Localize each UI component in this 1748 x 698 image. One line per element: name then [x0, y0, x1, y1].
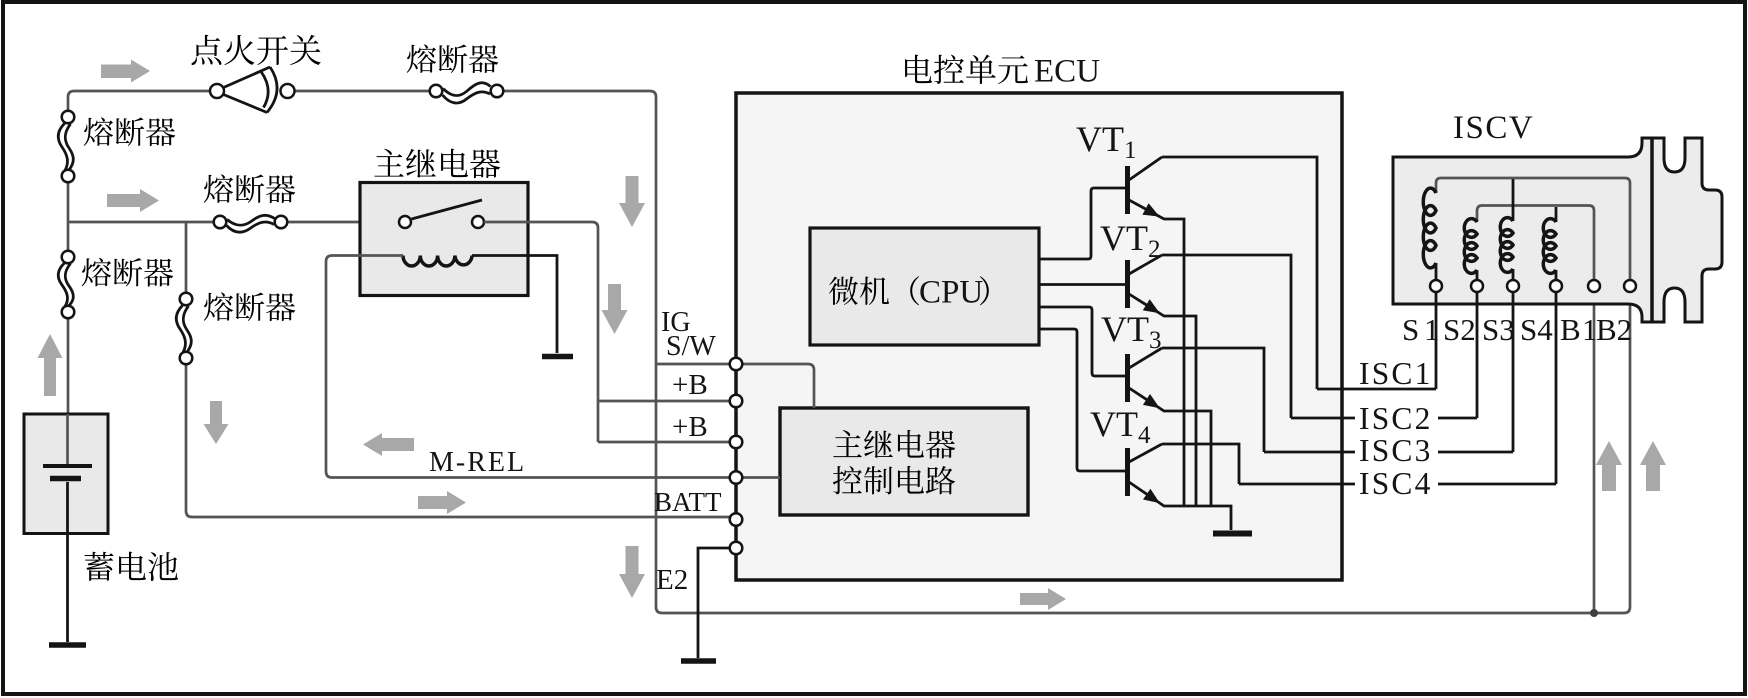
- svg-text:BATT: BATT: [654, 487, 722, 517]
- ground: battery: [49, 642, 86, 648]
- wire: coil to ground: [472, 256, 557, 354]
- flow arrow: bottom rail right: [1020, 588, 1066, 610]
- wire: IG S/W pin to control box: [742, 364, 814, 408]
- ignition switch SW (点火开关): [210, 67, 295, 113]
- CPU box 微机(CPU): [810, 228, 1039, 345]
- wire: ISCV supply rail 2 (B1): [1477, 206, 1594, 281]
- flow arrow: M-REL left: [363, 433, 414, 456]
- ground: E2: [681, 658, 716, 664]
- ground: relay coil: [542, 354, 573, 360]
- wire: ISC4: [1239, 483, 1556, 486]
- label: battery 蓄电池: [84, 552, 178, 582]
- svg-text:CPU: CPU: [919, 275, 983, 311]
- ISCV flange divider: [1650, 139, 1654, 321]
- svg-text:E2: E2: [656, 564, 688, 596]
- wire: ISC2: [1291, 417, 1477, 420]
- label: ） of CPU box: [980, 276, 989, 305]
- svg-text:S4: S4: [1520, 312, 1553, 347]
- battery plates: [43, 464, 92, 468]
- flow arrow: BATT branch down: [204, 401, 229, 444]
- flow arrow: +B down: [602, 284, 628, 334]
- relay switch contacts: [399, 216, 411, 228]
- wire: IG S/W branch into ECU: [656, 363, 730, 366]
- wire: S4 lead down to ISC4: [1555, 292, 1558, 484]
- wire: relay output to +B pins: [484, 222, 730, 442]
- battery box 蓄电池: [24, 414, 108, 534]
- svg-text:ISCV: ISCV: [1453, 110, 1534, 146]
- svg-text:ISC3: ISC3: [1359, 433, 1433, 468]
- fuse F2 (left vertical, upper): [58, 111, 74, 183]
- wire: E2 pin to ground: [698, 548, 730, 658]
- battery internal leads: [66, 414, 69, 464]
- svg-text:ISC2: ISC2: [1359, 401, 1433, 436]
- wire: S2 lead down to ISC2: [1476, 292, 1479, 418]
- relay coil: [403, 256, 472, 267]
- wire: rail drop to coil S4: [1555, 207, 1558, 222]
- ECU box 电控单元: [736, 93, 1342, 580]
- wire: CPU out 1 to VT1 base: [1039, 188, 1125, 259]
- svg-text:1: 1: [1424, 312, 1440, 347]
- svg-text:+B: +B: [672, 369, 708, 401]
- coil S4 winding: [1543, 219, 1556, 274]
- svg-text:S3: S3: [1482, 312, 1515, 347]
- wire: rail drop to coil S3: [1512, 179, 1515, 221]
- wire: BATT branch vertical x=186: [186, 222, 730, 517]
- wire: M-REL control (coil to ECU): [326, 256, 730, 478]
- flow arrow: E2 down: [619, 546, 645, 598]
- wire: S3 lead down to ISC3: [1512, 292, 1515, 452]
- coil S2 winding: [1464, 219, 1477, 274]
- relay switch blade: [412, 200, 483, 219]
- svg-text:ISC1: ISC1: [1359, 356, 1433, 391]
- wire: ISC3: [1264, 451, 1513, 454]
- label: control box line2 控制电路: [833, 466, 955, 494]
- fuse F3 (left vertical, lower): [58, 251, 74, 319]
- wire: CPU out 4 to VT4 base: [1039, 329, 1125, 471]
- flow arrow: into ignition switch: [101, 60, 150, 83]
- svg-text:B2: B2: [1596, 312, 1632, 347]
- label: 微机（ of CPU box: [829, 276, 919, 305]
- svg-text:S/W: S/W: [666, 331, 716, 362]
- fuse F5 (on BATT branch): [176, 293, 192, 365]
- fuse F4 (on relay feed wire): [214, 215, 288, 232]
- wire: bottom supply rail to ISCV B1/B2: [656, 292, 1630, 613]
- flow arrow: BATT right: [418, 491, 466, 514]
- svg-text:ISC4: ISC4: [1359, 466, 1433, 501]
- wire: M-REL pin to control box: [742, 476, 780, 479]
- transistor VT1: [1125, 157, 1317, 506]
- wire: CPU out 3 to VT3 base: [1039, 307, 1125, 376]
- ECU pin terminals: [730, 358, 743, 555]
- label: control box line1 主继电器: [833, 430, 955, 459]
- coil S3 winding: [1500, 218, 1513, 273]
- junction: B1 on bottom rail: [1590, 609, 1598, 617]
- fuse F1 (top, on ignition feed): [430, 83, 504, 103]
- wire: ISCV supply rail 1 (B2): [1436, 178, 1630, 280]
- wire: B1 drop: [1593, 292, 1596, 613]
- svg-text:S2: S2: [1443, 312, 1476, 347]
- label: fuse F3 熔断器: [82, 258, 173, 287]
- label: ECU title 电控单元: [905, 55, 1028, 85]
- ISCV terminal circles: [1430, 280, 1636, 292]
- coil S1 winding: [1423, 188, 1436, 268]
- label: fuse F5 熔断器: [204, 292, 295, 321]
- wire: ISC1: [1317, 388, 1436, 391]
- flow arrow: B2 up: [1640, 441, 1666, 491]
- label: main relay 主继电器: [374, 149, 500, 179]
- label: fuse F4 熔断器: [204, 174, 295, 203]
- wire: CPU out 2 to VT2 base: [1039, 283, 1125, 286]
- svg-text:+B: +B: [672, 411, 708, 443]
- flow arrow: battery up: [38, 334, 63, 396]
- svg-text:S: S: [1402, 312, 1419, 347]
- svg-text:B: B: [1560, 312, 1581, 347]
- flow arrow: into relay feed: [107, 189, 159, 212]
- transistor VT3: [1125, 348, 1264, 506]
- wire: top ignition feed y=91: [74, 91, 656, 609]
- main relay control circuit box 主继电器控制电路: [780, 408, 1028, 515]
- svg-text:ECU: ECU: [1034, 54, 1100, 90]
- wire: coil tails to terminals: [1436, 263, 1556, 280]
- main relay K1 box: [360, 183, 528, 296]
- ISCV valve body: [1393, 138, 1722, 322]
- svg-text:M-REL: M-REL: [429, 447, 526, 478]
- label: ignition switch 点火开关: [191, 35, 320, 65]
- wire: battery positive rail (left vertical, x=68): [68, 91, 74, 414]
- wire: relay feed y=222: [68, 221, 399, 224]
- transistor VT2: [1125, 255, 1291, 506]
- label: fuse F2 熔断器: [84, 117, 175, 146]
- flow arrow: B1 up: [1596, 441, 1622, 491]
- transistor VT4: [1125, 444, 1239, 530]
- ground: transistor emitters: [1213, 531, 1252, 537]
- wire: S1 lead down to ISC1: [1435, 292, 1438, 389]
- battery negative lead: [66, 482, 69, 642]
- label: fuse F1 熔断器: [407, 44, 498, 73]
- flow arrow: IG down: [619, 176, 645, 227]
